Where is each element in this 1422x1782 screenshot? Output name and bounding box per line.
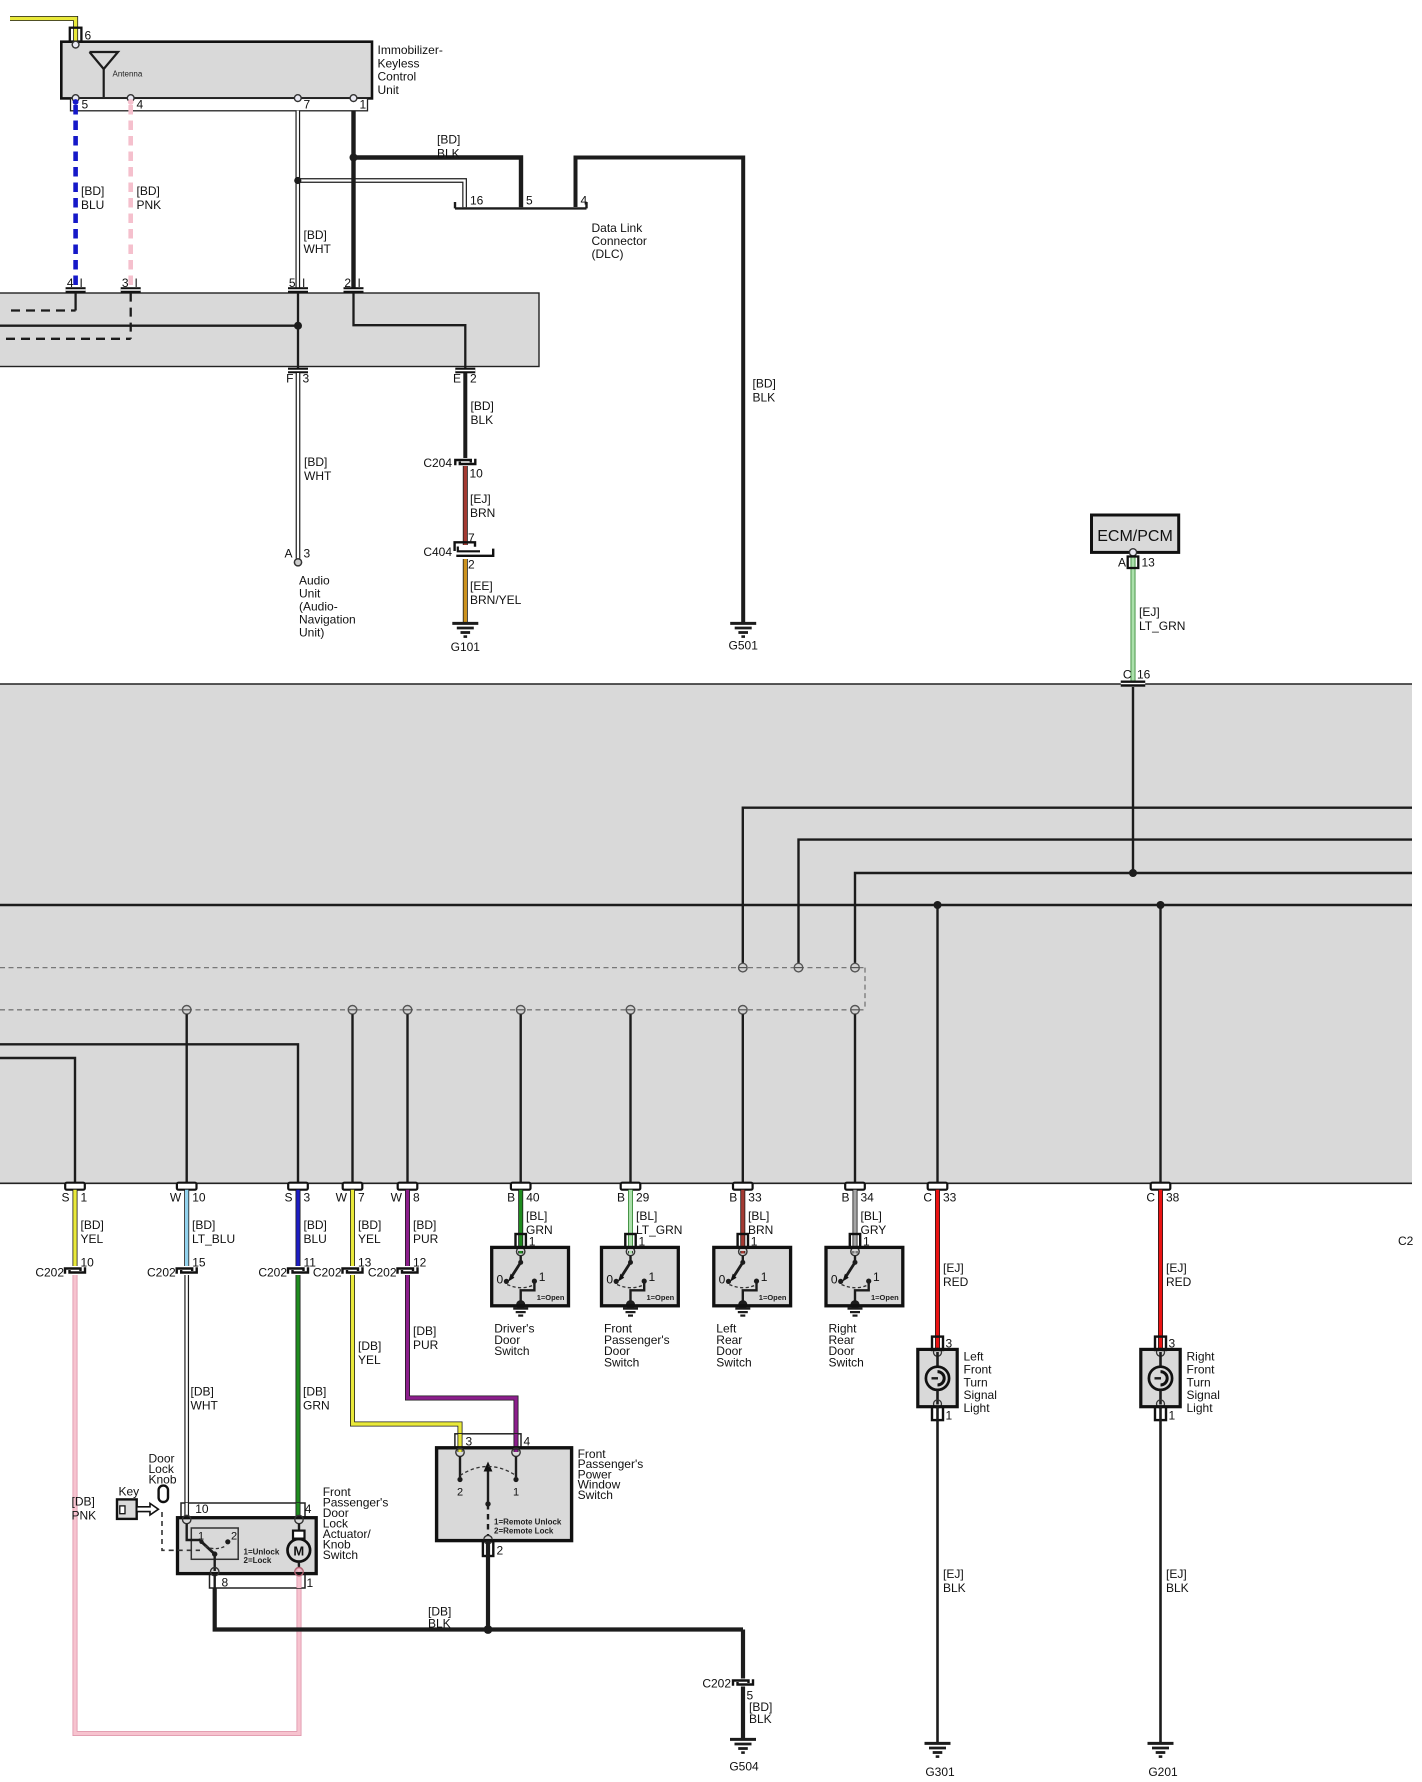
svg-text:2: 2	[470, 372, 477, 386]
svg-text:7: 7	[358, 1191, 365, 1205]
svg-text:C: C	[1146, 1191, 1155, 1205]
svg-text:PNK: PNK	[137, 198, 162, 212]
svg-text:C202: C202	[147, 1266, 176, 1280]
svg-text:BLK: BLK	[471, 413, 494, 427]
svg-text:1: 1	[539, 1270, 546, 1284]
svg-text:Keyless: Keyless	[378, 56, 420, 70]
svg-text:1: 1	[360, 98, 367, 112]
svg-text:Left: Left	[964, 1350, 985, 1364]
svg-text:[EE]: [EE]	[470, 579, 493, 593]
svg-text:3: 3	[122, 276, 129, 290]
svg-text:3: 3	[466, 1435, 473, 1449]
svg-text:B: B	[729, 1191, 737, 1205]
svg-text:[BD]: [BD]	[358, 1218, 381, 1232]
svg-text:Front: Front	[1187, 1362, 1216, 1376]
svg-text:W: W	[170, 1191, 182, 1205]
svg-text:(Audio-: (Audio-	[299, 600, 338, 614]
svg-text:[DB]: [DB]	[358, 1339, 381, 1353]
svg-text:[DB]: [DB]	[72, 1495, 95, 1509]
svg-text:Unit: Unit	[378, 83, 400, 97]
svg-text:E: E	[453, 372, 461, 386]
svg-text:A: A	[284, 547, 292, 561]
svg-text:[DB]: [DB]	[191, 1385, 214, 1399]
svg-text:I: I	[358, 276, 361, 290]
svg-text:Signal: Signal	[1187, 1388, 1220, 1402]
svg-text:F: F	[286, 372, 293, 386]
svg-text:1=Remote Unlock: 1=Remote Unlock	[494, 1518, 562, 1527]
svg-text:YEL: YEL	[358, 1353, 381, 1367]
svg-text:G501: G501	[729, 639, 759, 653]
svg-text:34: 34	[861, 1191, 875, 1205]
svg-text:G201: G201	[1148, 1765, 1178, 1779]
svg-text:10: 10	[81, 1256, 95, 1270]
svg-text:BRN/YEL: BRN/YEL	[470, 593, 522, 607]
svg-text:GRN: GRN	[303, 1399, 330, 1413]
svg-text:S: S	[61, 1191, 69, 1205]
svg-text:Turn: Turn	[1187, 1375, 1211, 1389]
svg-text:Unit): Unit)	[299, 626, 324, 640]
svg-text:5: 5	[526, 194, 533, 208]
svg-text:Light: Light	[1187, 1401, 1214, 1415]
svg-text:15: 15	[192, 1256, 206, 1270]
svg-text:BLK: BLK	[749, 1712, 772, 1726]
svg-text:C202: C202	[368, 1266, 397, 1280]
svg-text:10: 10	[195, 1502, 209, 1516]
svg-text:2=Lock: 2=Lock	[244, 1556, 272, 1565]
svg-text:BLK: BLK	[437, 147, 460, 161]
svg-text:BLK: BLK	[943, 1581, 966, 1595]
svg-text:29: 29	[636, 1191, 650, 1205]
svg-text:0: 0	[606, 1273, 613, 1287]
svg-text:Audio: Audio	[299, 574, 330, 588]
svg-text:1=Open: 1=Open	[537, 1293, 565, 1302]
svg-text:WHT: WHT	[304, 242, 332, 256]
svg-text:Navigation: Navigation	[299, 613, 356, 627]
svg-text:[BD]: [BD]	[753, 377, 776, 391]
svg-text:G301: G301	[925, 1765, 955, 1779]
svg-text:YEL: YEL	[358, 1232, 381, 1246]
svg-text:I: I	[302, 276, 305, 290]
svg-text:10: 10	[192, 1191, 206, 1205]
svg-text:Front: Front	[964, 1362, 993, 1376]
svg-text:2: 2	[497, 1544, 504, 1558]
svg-text:WHT: WHT	[304, 469, 332, 483]
svg-text:BLU: BLU	[304, 1232, 327, 1246]
svg-text:S: S	[284, 1191, 292, 1205]
svg-text:I: I	[80, 276, 83, 290]
svg-text:BRN: BRN	[470, 506, 495, 520]
svg-text:1: 1	[946, 1409, 953, 1423]
svg-text:ECM/PCM: ECM/PCM	[1097, 528, 1173, 545]
svg-text:I: I	[135, 276, 138, 290]
svg-text:5: 5	[289, 276, 296, 290]
svg-text:Key: Key	[119, 1485, 140, 1499]
svg-text:LT_GRN: LT_GRN	[1139, 619, 1185, 633]
svg-text:M: M	[293, 1544, 304, 1559]
svg-text:Right: Right	[1187, 1350, 1216, 1364]
svg-text:C202: C202	[313, 1266, 342, 1280]
svg-text:Switch: Switch	[829, 1355, 864, 1369]
svg-text:16: 16	[470, 194, 484, 208]
svg-text:[BL]: [BL]	[526, 1209, 547, 1223]
svg-text:RED: RED	[1166, 1275, 1192, 1289]
svg-text:PUR: PUR	[413, 1338, 439, 1352]
svg-text:PUR: PUR	[413, 1232, 439, 1246]
svg-text:[BD]: [BD]	[304, 455, 327, 469]
svg-text:[BD]: [BD]	[304, 1218, 327, 1232]
svg-text:C202: C202	[35, 1266, 64, 1280]
svg-text:[BL]: [BL]	[636, 1209, 657, 1223]
svg-text:Switch: Switch	[604, 1355, 639, 1369]
svg-text:Immobilizer-: Immobilizer-	[378, 43, 443, 57]
svg-text:1=Open: 1=Open	[759, 1293, 787, 1302]
svg-text:38: 38	[1166, 1191, 1180, 1205]
svg-text:[BD]: [BD]	[137, 184, 160, 198]
svg-text:C404: C404	[423, 545, 452, 559]
svg-text:B: B	[617, 1191, 625, 1205]
svg-text:C: C	[923, 1191, 932, 1205]
svg-text:Unit: Unit	[299, 587, 321, 601]
svg-text:40: 40	[526, 1191, 540, 1205]
svg-text:3: 3	[303, 372, 310, 386]
svg-text:Switch: Switch	[494, 1344, 529, 1358]
svg-text:[BD]: [BD]	[304, 228, 327, 242]
svg-text:C202: C202	[702, 1677, 731, 1691]
svg-text:2: 2	[231, 1531, 237, 1543]
svg-text:2: 2	[344, 276, 351, 290]
svg-text:PNK: PNK	[72, 1509, 97, 1523]
svg-text:1: 1	[81, 1191, 88, 1205]
svg-text:G504: G504	[729, 1760, 759, 1774]
svg-text:W: W	[336, 1191, 348, 1205]
svg-text:BLK: BLK	[428, 1617, 451, 1631]
svg-text:0: 0	[497, 1273, 504, 1287]
svg-text:4: 4	[67, 276, 74, 290]
svg-text:[BD]: [BD]	[471, 399, 494, 413]
svg-text:[DB]: [DB]	[303, 1385, 326, 1399]
svg-text:Signal: Signal	[964, 1388, 997, 1402]
svg-text:[EJ]: [EJ]	[1166, 1261, 1187, 1275]
svg-text:0: 0	[831, 1273, 838, 1287]
svg-text:1: 1	[513, 1487, 519, 1499]
svg-text:Connector: Connector	[592, 234, 647, 248]
svg-text:5: 5	[82, 98, 89, 112]
svg-text:33: 33	[748, 1191, 762, 1205]
svg-text:3: 3	[304, 547, 311, 561]
svg-text:1: 1	[1169, 1409, 1176, 1423]
svg-text:1=Open: 1=Open	[647, 1293, 675, 1302]
svg-text:4: 4	[524, 1435, 531, 1449]
svg-text:1: 1	[761, 1270, 768, 1284]
svg-text:1: 1	[873, 1270, 880, 1284]
svg-text:B: B	[507, 1191, 515, 1205]
svg-text:[EJ]: [EJ]	[1166, 1567, 1187, 1581]
svg-text:Control: Control	[378, 70, 417, 84]
svg-text:Antenna: Antenna	[113, 70, 143, 79]
svg-text:1: 1	[198, 1531, 204, 1543]
svg-text:Turn: Turn	[964, 1375, 988, 1389]
svg-text:C: C	[1123, 668, 1132, 682]
svg-text:Switch: Switch	[323, 1548, 358, 1562]
svg-text:33: 33	[943, 1191, 957, 1205]
svg-text:[BD]: [BD]	[81, 1218, 104, 1232]
svg-text:[BD]: [BD]	[192, 1218, 215, 1232]
svg-text:1: 1	[649, 1270, 656, 1284]
svg-text:C202: C202	[258, 1266, 287, 1280]
svg-text:(DLC): (DLC)	[592, 247, 624, 261]
svg-text:16: 16	[1137, 668, 1151, 682]
svg-text:RED: RED	[943, 1275, 969, 1289]
svg-text:0: 0	[719, 1273, 726, 1287]
svg-text:Data Link: Data Link	[592, 221, 644, 235]
svg-text:[BD]: [BD]	[437, 133, 460, 147]
svg-text:[EJ]: [EJ]	[1139, 605, 1160, 619]
svg-text:Knob: Knob	[149, 1473, 177, 1487]
svg-text:C204: C204	[423, 456, 452, 470]
svg-text:1: 1	[307, 1576, 314, 1590]
svg-text:[DB]: [DB]	[413, 1324, 436, 1338]
svg-text:Switch: Switch	[716, 1355, 751, 1369]
svg-text:G101: G101	[451, 640, 481, 654]
svg-text:C2: C2	[1398, 1234, 1414, 1248]
svg-text:10: 10	[470, 467, 484, 481]
svg-text:[BL]: [BL]	[748, 1209, 769, 1223]
svg-text:8: 8	[413, 1191, 420, 1205]
svg-text:WHT: WHT	[191, 1399, 219, 1413]
svg-text:2=Remote Lock: 2=Remote Lock	[494, 1527, 554, 1536]
svg-text:2: 2	[468, 558, 475, 572]
svg-text:4: 4	[581, 194, 588, 208]
svg-text:A: A	[1118, 556, 1126, 570]
svg-text:6: 6	[85, 29, 92, 43]
svg-text:[BL]: [BL]	[861, 1209, 882, 1223]
svg-text:2: 2	[457, 1487, 463, 1499]
svg-text:BLK: BLK	[753, 391, 776, 405]
svg-text:12: 12	[413, 1256, 427, 1270]
svg-text:Light: Light	[964, 1401, 991, 1415]
svg-text:B: B	[841, 1191, 849, 1205]
svg-text:3: 3	[304, 1191, 311, 1205]
svg-text:YEL: YEL	[81, 1232, 104, 1246]
svg-text:LT_BLU: LT_BLU	[192, 1232, 235, 1246]
svg-text:4: 4	[137, 98, 144, 112]
svg-text:13: 13	[1142, 556, 1156, 570]
svg-text:[BD]: [BD]	[81, 184, 104, 198]
svg-text:[BD]: [BD]	[413, 1218, 436, 1232]
svg-text:BLU: BLU	[81, 198, 104, 212]
svg-text:[EJ]: [EJ]	[943, 1261, 964, 1275]
svg-text:Switch: Switch	[578, 1488, 613, 1502]
svg-text:BLK: BLK	[1166, 1581, 1189, 1595]
svg-text:[EJ]: [EJ]	[943, 1567, 964, 1581]
svg-text:W: W	[391, 1191, 403, 1205]
svg-text:8: 8	[222, 1575, 229, 1589]
svg-text:7: 7	[304, 98, 311, 112]
svg-text:[EJ]: [EJ]	[470, 492, 491, 506]
svg-text:1=Open: 1=Open	[871, 1293, 899, 1302]
svg-text:4: 4	[305, 1502, 312, 1516]
